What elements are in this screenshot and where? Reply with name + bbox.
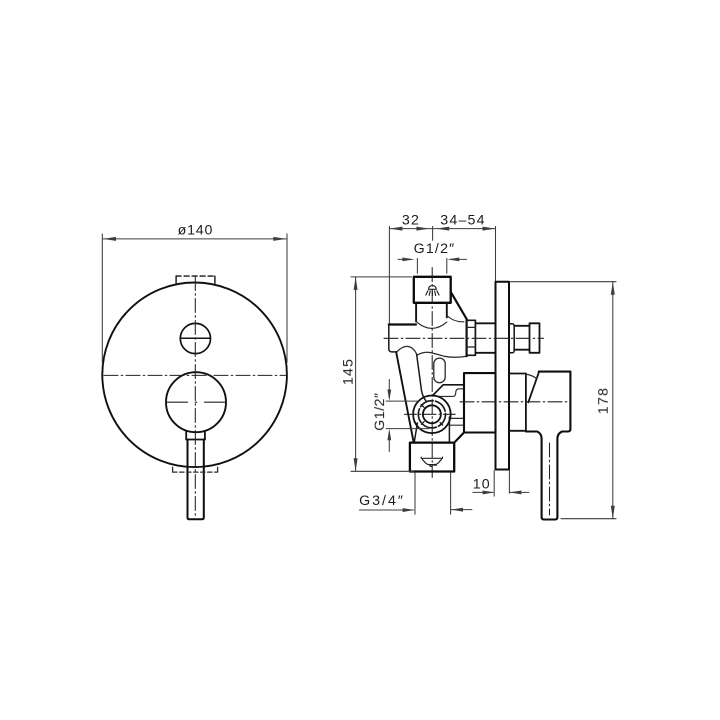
G3/4 extension lines bbox=[415, 473, 451, 514]
washer behind plate bbox=[509, 324, 514, 353]
adapter sleeve bbox=[514, 326, 529, 350]
shower head icon bbox=[426, 285, 439, 295]
svg-text:G3/4″: G3/4″ bbox=[359, 493, 405, 509]
G1/2 top arrows bbox=[398, 258, 467, 273]
front view vertical centerline bbox=[194, 277, 196, 516]
thread tick marks bbox=[421, 405, 443, 426]
body left diagonal bbox=[396, 352, 413, 441]
shower outlet box bbox=[414, 277, 451, 303]
svg-text:32: 32 bbox=[402, 213, 420, 229]
lever stem centerline bbox=[549, 443, 551, 515]
dim 32 / 34-54 extension lines bbox=[389, 226, 495, 323]
svg-text:10: 10 bbox=[473, 476, 491, 492]
diagonal strut from box to body bbox=[451, 292, 467, 319]
G3/4 leader line bbox=[360, 509, 414, 511]
lever hub bbox=[526, 372, 571, 520]
dimension Ø140 line with arrows bbox=[103, 238, 286, 240]
svg-text:145: 145 bbox=[341, 358, 357, 385]
svg-text:ø140: ø140 bbox=[178, 223, 214, 239]
handle hub large circle bbox=[166, 372, 226, 432]
svg-text:G1/2″: G1/2″ bbox=[414, 241, 456, 257]
hub crosshair horizontal centerline bbox=[166, 401, 226, 403]
svg-text:34–54: 34–54 bbox=[440, 213, 485, 229]
end cap bbox=[530, 323, 540, 353]
dim 178 line bbox=[612, 282, 614, 519]
wall plate bbox=[496, 282, 510, 470]
cylinder between plate and hub bbox=[509, 374, 526, 431]
ledge diagonal to boss circle bbox=[433, 385, 443, 395]
dim 145 extension lines bbox=[351, 277, 414, 471]
front view horizontal centerline bbox=[104, 374, 286, 376]
inlet thread circle bbox=[418, 401, 445, 428]
svg-text:G1/2″: G1/2″ bbox=[372, 392, 388, 430]
hub wedge arc bbox=[526, 374, 537, 378]
body inner diagonal bbox=[417, 354, 426, 400]
dim 32 line bbox=[389, 228, 432, 230]
upper axis centerline bbox=[384, 337, 544, 339]
dimension Ø140 extension lines bbox=[102, 234, 287, 363]
handle lever stem bbox=[188, 440, 204, 520]
dim arrows top bbox=[389, 227, 495, 231]
bottom hidden tab (dashed) bbox=[173, 467, 218, 472]
body top cast scallops bbox=[397, 346, 417, 354]
ledge upper line bbox=[443, 384, 463, 386]
main vertical centerline of side view bbox=[431, 268, 433, 478]
escutcheon plate circle bbox=[102, 283, 287, 468]
pipe flare to right bbox=[447, 316, 464, 322]
dim 34-54 line bbox=[433, 228, 496, 230]
lower axis centerline bbox=[460, 401, 567, 403]
lower boss rectangle bbox=[464, 373, 496, 432]
dim 10 extension lines bbox=[494, 471, 509, 497]
boss chamfer to outlet box bbox=[455, 433, 464, 442]
diverter knob small circle bbox=[180, 323, 210, 353]
left inlet stub bbox=[389, 323, 416, 325]
inlet boss outer circle bbox=[413, 396, 451, 434]
ledge stepped line bbox=[437, 389, 463, 397]
top mounting tab bbox=[176, 276, 215, 284]
side G1/2 dimension lines bbox=[386, 380, 429, 452]
shower pipe below box bbox=[415, 303, 417, 322]
inlet bore circle bbox=[423, 405, 441, 423]
hub wedge diagonal bbox=[528, 372, 539, 402]
body right edge bbox=[466, 319, 468, 356]
diverter knob slot line bbox=[180, 337, 210, 339]
outlet box G3/4 bbox=[410, 443, 454, 472]
handle collar bbox=[186, 431, 205, 440]
ledge short lines bbox=[450, 417, 464, 419]
dim 10 lines and arrows bbox=[473, 491, 493, 493]
tub spout icon bbox=[421, 457, 442, 466]
boss right vertical below circle bbox=[448, 417, 450, 443]
cartridge slot capsule bbox=[434, 358, 445, 383]
dim 145 line bbox=[355, 277, 357, 471]
inlet circle horizontal centerline bbox=[405, 413, 456, 415]
inlet nut bbox=[467, 320, 476, 355]
svg-text:178: 178 bbox=[596, 387, 612, 414]
inlet pipe to wall plate bbox=[475, 322, 495, 324]
boss lower-left edge bbox=[414, 423, 417, 441]
pipe root fillet arc bbox=[416, 322, 447, 329]
dim 178 extension lines bbox=[511, 282, 617, 519]
